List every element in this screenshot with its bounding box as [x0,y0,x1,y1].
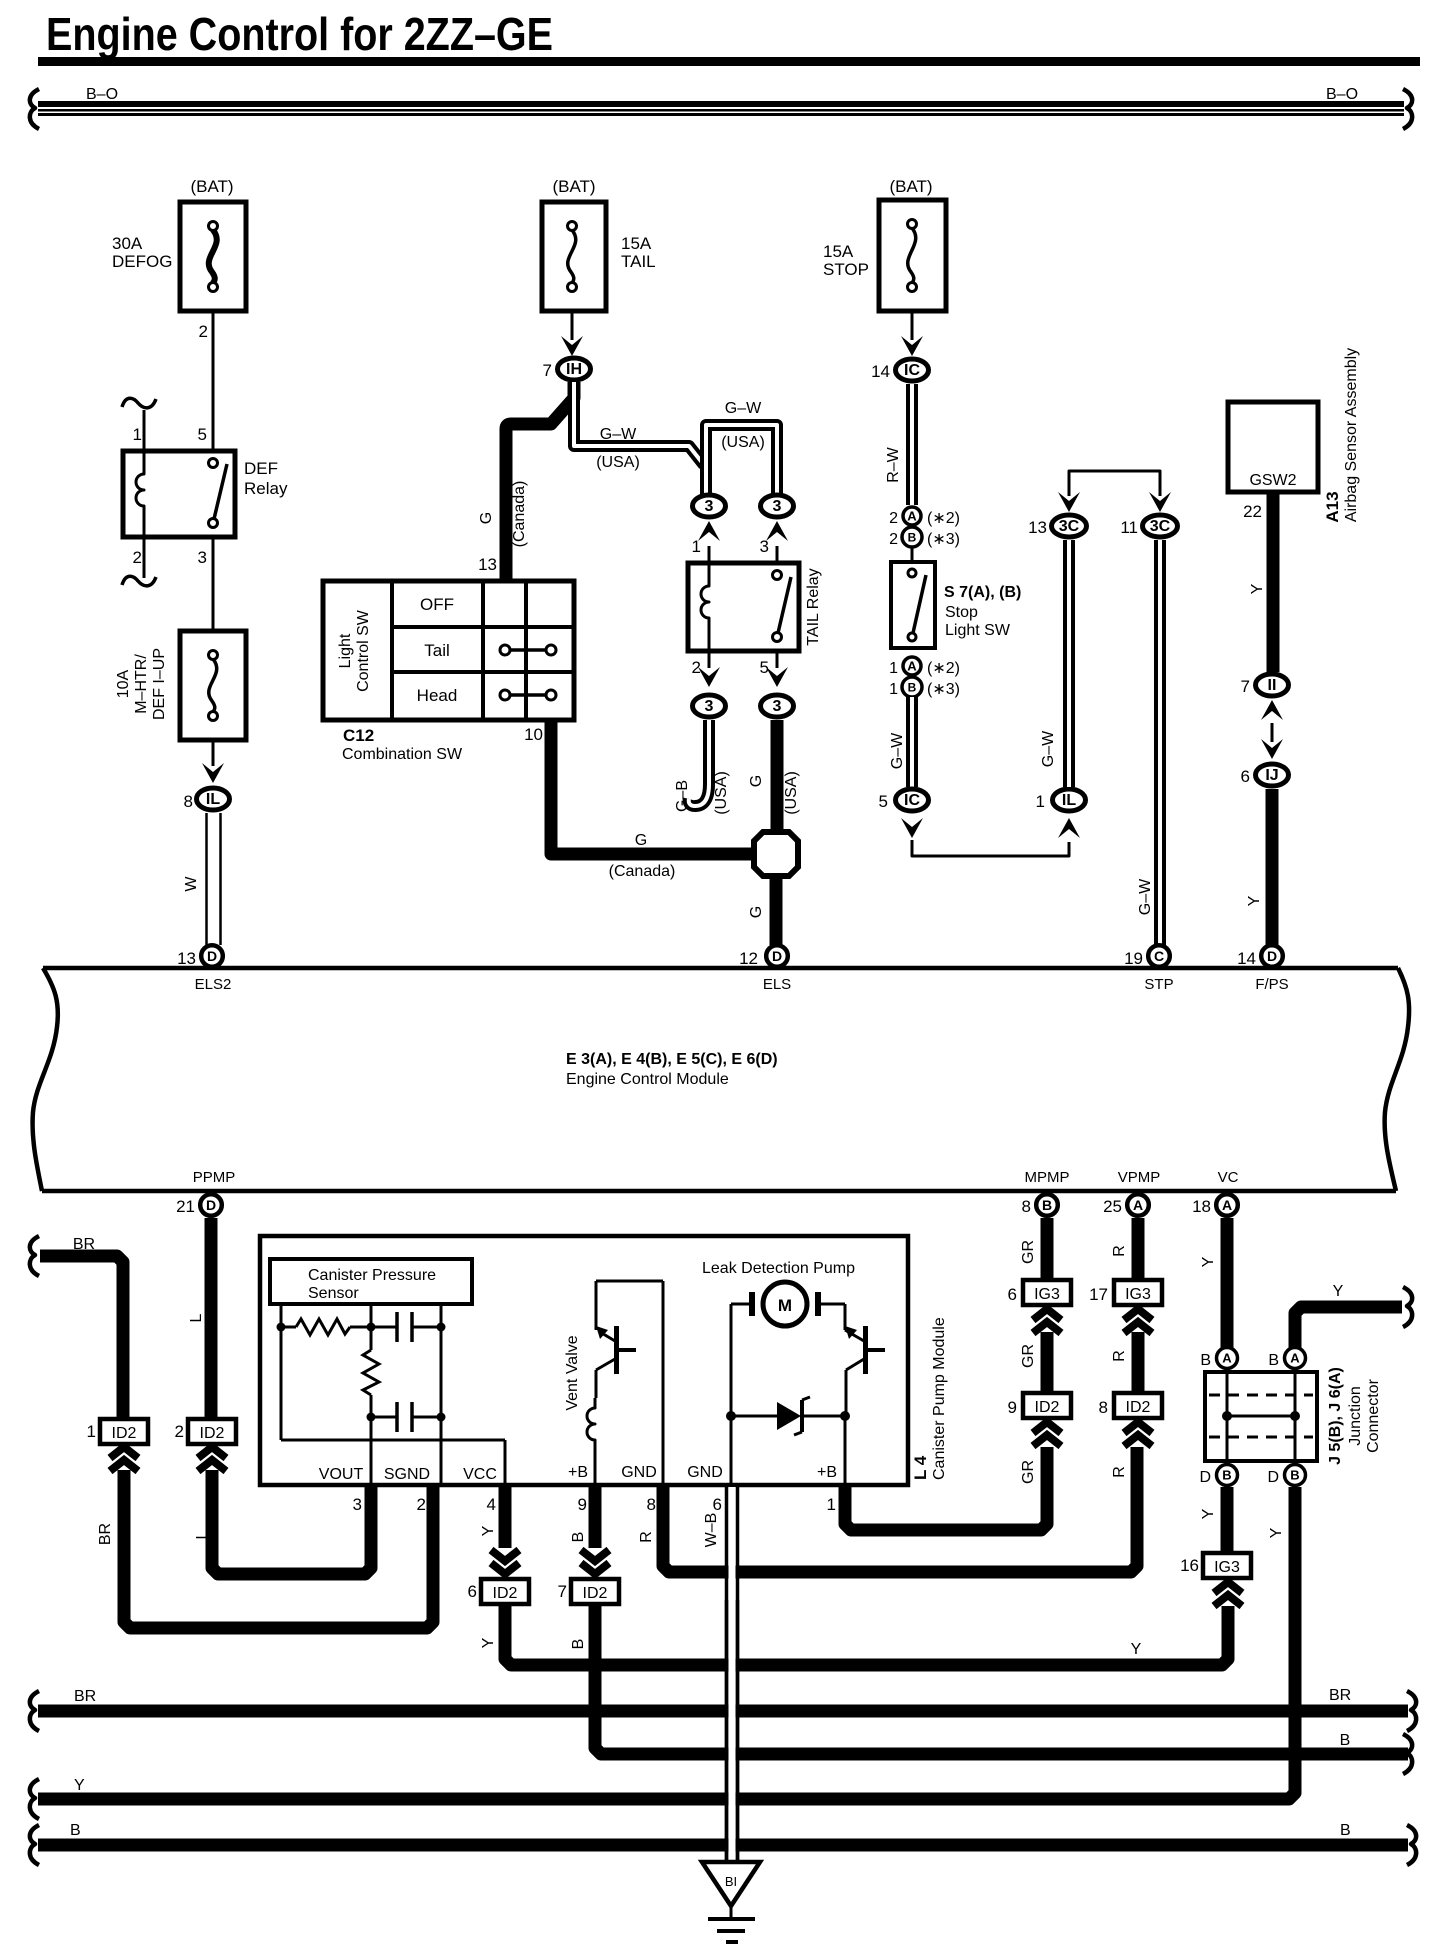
svg-text:R: R [1111,1466,1128,1478]
svg-text:ID2: ID2 [200,1425,225,1442]
svg-text:A: A [907,659,917,674]
node 12 D ELS [739,945,791,993]
node 19 C STP [1124,945,1174,993]
svg-text:1: 1 [692,537,701,556]
svg-text:MPMP: MPMP [1025,1169,1070,1186]
svg-text:C12: C12 [343,726,374,745]
svg-text:1: 1 [827,1495,836,1514]
svg-text:Connector: Connector [1365,1378,1382,1452]
svg-text:3C: 3C [1059,518,1080,535]
svg-text:9: 9 [578,1495,587,1514]
svg-text:B: B [1042,1197,1052,1213]
svg-text:IL: IL [206,791,220,808]
wire G-W (USA) loop to tail relay connector 3 right [706,400,777,494]
svg-text:B: B [1290,1468,1299,1483]
svg-text:BI: BI [725,1874,737,1889]
junction block 7 ID2 [558,1579,619,1604]
svg-text:8: 8 [647,1495,656,1514]
svg-text:ELS: ELS [763,976,791,993]
connector 7 II [1241,674,1289,696]
svg-text:2: 2 [889,510,898,527]
connector 6 IJ [1241,764,1289,786]
svg-text:B: B [570,1639,587,1650]
module Engine Control Module band [33,968,1410,1191]
svg-text:B: B [1340,1732,1351,1749]
svg-text:R: R [638,1531,655,1543]
wire G (USA) to junction octagon [748,720,800,830]
node 21 D PPMP [176,1169,235,1216]
svg-text:1: 1 [1036,792,1045,811]
wire Y from GSW2 pin22 to connector II [1243,492,1273,672]
wire pump GND and +B columns [687,1416,845,1485]
connector 3 (below pin2) [693,695,726,717]
junction octagon splice [754,832,798,876]
wire BR bus bottom [30,1687,1416,1731]
svg-text:OFF: OFF [420,595,454,614]
wire G (Canada) from SW pin10 to junction octagon [524,722,752,880]
wire W from IL to ECM ELS2 [183,813,221,945]
svg-text:G–W: G–W [1137,878,1154,915]
svg-text:Y: Y [480,1637,497,1648]
svg-text:D: D [206,1197,216,1213]
svg-text:DEFOG: DEFOG [112,252,172,271]
svg-text:GR: GR [1020,1344,1037,1368]
fuse 15A TAIL [542,177,656,311]
svg-text:B: B [908,681,917,695]
svg-text:6: 6 [713,1495,722,1514]
switch contacts Tail row [500,645,556,655]
connector 13 3C [1028,515,1086,537]
svg-text:3: 3 [773,698,782,715]
wire DEF relay pin3 to fuse 10A [212,537,215,631]
wire G-W from 1 IL to 13 3C [1040,540,1069,787]
valve Vent Valve [564,1281,663,1485]
wire B-O main bus [30,86,1412,129]
svg-text:IC: IC [904,362,920,379]
svg-text:Relay: Relay [244,479,288,498]
relay DEF Relay [123,425,288,567]
svg-text:Junction: Junction [1347,1386,1364,1446]
svg-text:15A: 15A [621,234,652,253]
svg-text:(∗2): (∗2) [927,660,960,677]
svg-text:A: A [1133,1197,1143,1213]
svg-text:Stop: Stop [945,604,978,621]
svg-text:G–W: G–W [600,426,637,443]
wire Y from junction D-B right to Y bus [38,1487,1295,1799]
wire G from octagon to ECM ELS [748,879,776,945]
connector J5 J6 Junction Connector [1205,1367,1382,1465]
junction block 2 ID2 [175,1419,236,1444]
svg-text:1: 1 [87,1422,96,1441]
wire G-B (USA) pigtail [674,720,730,815]
wire B from module +B9 to 7 ID2 [570,1485,609,1574]
svg-text:4: 4 [487,1495,496,1514]
svg-text:1: 1 [889,660,898,677]
svg-text:VPMP: VPMP [1118,1169,1161,1186]
svg-text:Light: Light [337,633,354,668]
svg-text:VC: VC [1218,1169,1239,1186]
svg-text:ID2: ID2 [1126,1399,1151,1416]
node D B junction bottom right [1267,1465,1305,1487]
svg-text:(∗3): (∗3) [927,531,960,548]
svg-text:M: M [778,1296,792,1315]
svg-text:30A: 30A [112,234,143,253]
svg-text:B–O: B–O [1326,86,1358,103]
relay TAIL Relay [688,563,822,651]
svg-text:II: II [1268,677,1277,694]
capacitor C-top in sensor [397,1312,441,1342]
module L4 Canister Pump Module [260,1236,948,1485]
svg-text:Combination SW: Combination SW [342,746,463,763]
svg-text:TAIL Relay: TAIL Relay [805,568,822,645]
svg-text:VCC: VCC [463,1466,497,1483]
node 8 B MPMP [1022,1169,1070,1216]
wire Y from junction D-B left to 16 IG3 [1200,1487,1227,1553]
svg-text:BR: BR [1329,1687,1351,1704]
node B A junction top left [1200,1348,1237,1370]
capacitor C-bottom in sensor [371,1402,441,1432]
svg-text:G: G [635,832,647,849]
svg-text:Tail: Tail [424,641,450,660]
wire GR from 9 ID2 to module +B1 [845,1422,1061,1530]
arrow 8 ID2 up [1111,1422,1152,1478]
svg-text:2: 2 [199,322,208,341]
wire Y from ECM VC to junction connector [1200,1218,1227,1348]
svg-text:25: 25 [1103,1197,1122,1216]
svg-text:A: A [1222,1351,1232,1366]
wire fuse DEFOG pin2 to DEF relay pin5 [199,311,213,451]
svg-text:15A: 15A [823,242,854,261]
svg-text:(BAT): (BAT) [190,177,233,196]
svg-text:Y: Y [74,1777,85,1794]
svg-text:G–W: G–W [725,400,762,417]
wire Y from module VCC to 6 ID2 [480,1485,519,1574]
svg-text:12: 12 [739,949,758,968]
svg-text:DEF I–UP: DEF I–UP [151,648,168,720]
module A13 Airbag Sensor Assembly GSW2 [1228,348,1360,523]
svg-text:19: 19 [1124,949,1143,968]
connector 1 IL [1036,789,1086,811]
svg-text:2: 2 [692,658,701,677]
svg-text:B: B [1200,1352,1211,1369]
svg-text:A13: A13 [1323,491,1342,522]
wire L from 2 ID2 to module VOUT [194,1447,371,1574]
svg-text:2: 2 [175,1422,184,1441]
svg-text:D: D [1267,948,1277,964]
svg-text:L 4: L 4 [911,1455,930,1480]
svg-text:G–B: G–B [674,780,691,812]
svg-text:3: 3 [773,498,782,515]
wire DEF relay pin2 stub [122,537,156,586]
svg-text:VOUT: VOUT [319,1466,364,1483]
svg-text:14: 14 [1237,949,1256,968]
svg-text:6: 6 [468,1582,477,1601]
svg-text:D: D [772,948,782,964]
svg-text:16: 16 [1180,1556,1199,1575]
sensor Canister Pressure Sensor [270,1259,472,1304]
svg-text:TAIL: TAIL [621,252,656,271]
svg-text:3: 3 [705,498,714,515]
wire GR from ECM MPMP to 6 IG3 [1020,1218,1047,1282]
wire W-B overlay crossing buses [727,1600,738,1862]
wire from 5 IC to 1 IL [901,818,1080,856]
ground BI [702,1862,760,1942]
svg-text:Canister Pump Module: Canister Pump Module [931,1317,948,1480]
svg-text:B: B [70,1822,81,1839]
svg-text:(Canada): (Canada) [609,863,676,880]
svg-text:A: A [1222,1197,1232,1213]
svg-text:6: 6 [1008,1285,1017,1304]
svg-text:3: 3 [705,698,714,715]
svg-text:Y: Y [1246,895,1263,906]
svg-text:7: 7 [558,1582,567,1601]
svg-text:Engine Control for 2ZZ–GE: Engine Control for 2ZZ–GE [46,8,553,60]
wire BR feed from harness to 1 ID2 [30,1236,123,1419]
svg-text:13: 13 [1028,518,1047,537]
svg-text:Y: Y [1268,1527,1285,1538]
svg-text:IC: IC [904,792,920,809]
svg-text:2: 2 [889,531,898,548]
svg-text:10: 10 [524,725,543,744]
svg-text:R: R [1111,1350,1128,1362]
svg-text:13: 13 [478,555,497,574]
svg-text:D: D [207,948,217,964]
svg-text:Y: Y [1333,1283,1344,1300]
svg-text:Y: Y [1200,1508,1217,1519]
wire bridge 13 3C to 11 3C [1058,471,1171,512]
svg-text:GR: GR [1020,1460,1037,1484]
svg-text:PPMP: PPMP [193,1169,236,1186]
svg-text:IJ: IJ [1265,767,1278,784]
svg-text:G: G [748,906,765,918]
svg-text:R–W: R–W [885,446,902,482]
svg-text:G: G [478,512,495,524]
fuse 30A DEFOG [112,177,246,311]
svg-text:D: D [1267,1469,1279,1486]
svg-text:Engine Control Module: Engine Control Module [566,1071,729,1088]
svg-text:3: 3 [760,537,769,556]
wire R from ECM VPMP to 17 IG3 [1111,1218,1138,1282]
svg-text:R: R [1111,1245,1128,1257]
node 1 B (*3) [889,677,960,698]
wire R 17 IG3 to 8 ID2 [1111,1309,1152,1393]
svg-text:GSW2: GSW2 [1249,472,1296,489]
svg-text:B: B [908,531,917,545]
junction block 16 IG3 [1180,1553,1251,1578]
wire B from 7 ID2 to B bus [570,1604,1412,1774]
connector 3 (tail relay pin3) [761,495,794,517]
node 13 D ELS2 [177,945,231,993]
label +B GND pins vent valve [568,1464,657,1481]
svg-text:BR: BR [73,1236,95,1253]
svg-text:Y: Y [1131,1641,1142,1658]
node B A junction top right [1268,1348,1305,1370]
node 1 A (*2) [889,657,960,677]
svg-text:Control SW: Control SW [355,609,372,692]
junction block 6 ID2 [468,1579,529,1604]
connector 8 IL [184,788,230,811]
svg-text:7: 7 [1241,677,1250,696]
svg-text:IG3: IG3 [1034,1286,1060,1303]
svg-text:M–HTR/: M–HTR/ [133,654,150,714]
svg-text:W–B: W–B [703,1513,720,1548]
wire motor to GND column [731,1304,749,1416]
svg-text:5: 5 [760,658,769,677]
svg-text:8: 8 [1099,1398,1108,1417]
wire DEF relay pin1 stub [122,398,156,451]
svg-text:1: 1 [889,681,898,698]
svg-text:STP: STP [1144,976,1173,993]
svg-text:3C: 3C [1150,518,1171,535]
svg-text:(USA): (USA) [721,434,765,451]
svg-text:B: B [1222,1468,1231,1483]
title Engine Control for 2ZZ-GE [38,8,1420,66]
svg-text:GND: GND [621,1464,657,1481]
svg-text:ID2: ID2 [112,1425,137,1442]
switch C12 Light Control SW table [323,581,574,720]
svg-text:Head: Head [417,686,458,705]
svg-text:L: L [194,1530,211,1539]
junction block 17 IG3 [1089,1280,1162,1305]
resistor R-vertical in sensor [363,1327,379,1417]
transistor pump driver [821,1304,885,1416]
svg-text:C: C [1154,948,1164,964]
wire tail relay pin1 up-arrow [692,521,720,563]
svg-text:GND: GND [687,1464,723,1481]
svg-text:B: B [570,1532,587,1543]
wire BR from 1 ID2 to module SGND [97,1447,433,1628]
wire sensor nodes and columns [277,1323,506,1486]
svg-text:Vent Valve: Vent Valve [564,1335,581,1410]
wire R from module GND8 to 8 ID2 [638,1447,1137,1572]
svg-text:2: 2 [133,548,142,567]
wire fuse TAIL to connector IH [561,311,583,356]
svg-text:(∗2): (∗2) [927,510,960,527]
svg-text:G–W: G–W [889,732,906,769]
switch S7 Stop Light SW [891,547,1021,648]
svg-text:18: 18 [1192,1197,1211,1216]
diode zener in pump [726,1397,850,1435]
svg-text:ELS2: ELS2 [195,976,232,993]
svg-text:7: 7 [543,361,552,380]
svg-text:6: 6 [1241,767,1250,786]
svg-text:10A: 10A [115,669,132,698]
connector 5 IC [879,789,929,811]
svg-text:5: 5 [879,792,888,811]
svg-text:B: B [1340,1822,1351,1839]
label module pin numbers [353,1495,836,1514]
node 14 D F/PS [1237,945,1289,993]
svg-text:13: 13 [177,949,196,968]
wire G-W stop SW to connector IC 5 [889,697,912,787]
svg-text:Light SW: Light SW [945,622,1011,639]
svg-text:(USA): (USA) [713,771,730,815]
svg-text:IG3: IG3 [1125,1286,1151,1303]
wire L from ECM PPMP to 2 ID2 [188,1218,211,1419]
wire G (Canada) from IH to light control SW pin13 [478,382,574,584]
wire fuse 10A to connector IL [202,740,224,783]
svg-text:IH: IH [566,361,582,378]
svg-text:ID2: ID2 [493,1585,518,1602]
svg-text:ID2: ID2 [583,1585,608,1602]
node 2 A (*2) [889,507,960,527]
wire Y feed from harness right to junction connector [1295,1283,1412,1348]
svg-text:Y: Y [1200,1256,1217,1267]
svg-text:D: D [1199,1469,1211,1486]
svg-text:Sensor: Sensor [308,1285,359,1302]
svg-text:B–O: B–O [86,86,118,103]
svg-text:17: 17 [1089,1285,1108,1304]
svg-text:8: 8 [184,792,193,811]
node 18 A VC [1192,1169,1239,1216]
junction block 1 ID2 [87,1419,148,1444]
svg-text:Y: Y [1249,583,1266,594]
junction block 6 IG3 [1008,1280,1071,1305]
svg-text:W: W [183,876,200,892]
wire tail relay pin2 down-arrow [692,651,720,687]
svg-text:2: 2 [417,1495,426,1514]
fuse 10A M-HTR/DEF I-UP [115,631,246,740]
svg-text:Leak Detection Pump: Leak Detection Pump [702,1260,855,1277]
switch contacts Head row [500,690,556,700]
svg-text:(USA): (USA) [783,771,800,815]
node 2 B (*3) [889,527,960,548]
svg-text:IL: IL [1062,792,1076,809]
svg-text:1: 1 [133,425,142,444]
svg-text:DEF: DEF [244,459,278,478]
wire Y from 6 ID2 to Y bus [480,1604,1228,1665]
svg-text:Y: Y [480,1525,497,1536]
svg-text:BR: BR [97,1523,114,1545]
node 25 A VPMP [1103,1169,1160,1216]
wire Y from IJ to ECM F/PS [1246,789,1272,945]
svg-text:(BAT): (BAT) [889,177,932,196]
connector 14 IC [871,359,928,381]
label C12 Combination SW [342,726,463,763]
svg-text:GR: GR [1020,1240,1037,1264]
wire GR 6 IG3 to 9 ID2 [1020,1309,1061,1393]
wire sensor stubs [281,1304,441,1327]
svg-text:22: 22 [1243,502,1262,521]
arrow 16 IG3 up [1214,1582,1242,1606]
svg-text:IG3: IG3 [1214,1559,1240,1576]
wire II to IJ [1261,700,1283,759]
svg-text:A: A [1290,1351,1300,1366]
fuse 15A STOP [823,177,946,311]
svg-text:G–W: G–W [1040,730,1057,767]
svg-text:J 5(B), J 6(A): J 5(B), J 6(A) [1327,1367,1344,1465]
svg-text:Airbag Sensor Assembly: Airbag Sensor Assembly [1343,348,1360,522]
svg-text:G: G [748,775,765,787]
svg-text:E 3(A), E 4(B), E 5(C), E 6(D): E 3(A), E 4(B), E 5(C), E 6(D) [566,1051,778,1068]
label module pins VOUT SGND VCC [319,1466,497,1483]
svg-text:STOP: STOP [823,260,869,279]
wire fuse STOP to connector IC [901,311,923,356]
svg-text:9: 9 [1008,1398,1017,1417]
svg-text:BR: BR [74,1688,96,1705]
wire W-B from module GND6 to ground [703,1485,738,1862]
wire tail relay pin5 down-arrow [760,651,788,687]
wire Y bus bottom curl [30,1777,85,1819]
svg-text:S 7(A), (B): S 7(A), (B) [944,584,1021,601]
svg-text:(USA): (USA) [596,454,640,471]
svg-text:ID2: ID2 [1035,1399,1060,1416]
node D B junction bottom left [1199,1465,1237,1487]
svg-text:8: 8 [1022,1197,1031,1216]
wire R-W from IC to stop light SW [885,384,912,505]
svg-text:5: 5 [198,425,207,444]
svg-text:SGND: SGND [384,1466,430,1483]
